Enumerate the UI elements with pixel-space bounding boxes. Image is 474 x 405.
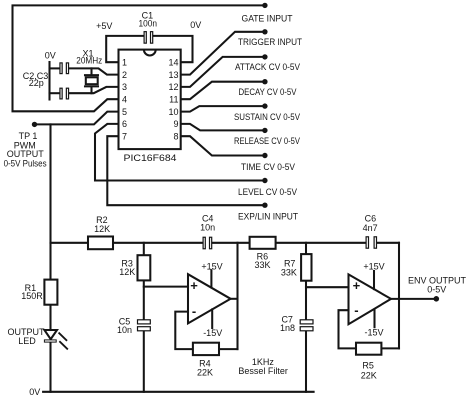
svg-text:10: 10 (168, 107, 178, 117)
svg-text:DECAY CV 0-5V: DECAY CV 0-5V (239, 87, 297, 97)
svg-text:11: 11 (169, 94, 178, 104)
svg-text:LEVEL CV 0-5V: LEVEL CV 0-5V (238, 187, 297, 197)
svg-text:-: - (192, 304, 196, 319)
svg-text:150R: 150R (21, 291, 43, 301)
svg-text:33K: 33K (281, 268, 297, 278)
svg-text:TIME CV 0-5V: TIME CV 0-5V (241, 162, 295, 172)
svg-text:33K: 33K (254, 260, 270, 270)
svg-text:14: 14 (168, 57, 178, 67)
svg-text:12K: 12K (94, 224, 110, 234)
svg-text:8: 8 (173, 131, 178, 141)
svg-text:C6: C6 (365, 213, 377, 223)
svg-text:22K: 22K (361, 371, 377, 381)
svg-text:+: + (190, 278, 198, 293)
svg-text:GATE INPUT: GATE INPUT (242, 13, 293, 23)
svg-text:0V: 0V (190, 20, 201, 30)
svg-text:1: 1 (122, 57, 127, 67)
svg-text:ATTACK CV 0-5V: ATTACK CV 0-5V (235, 62, 300, 72)
svg-text:+15V: +15V (363, 262, 384, 272)
svg-text:LED: LED (18, 336, 36, 346)
svg-text:10n: 10n (200, 222, 215, 232)
svg-text:SUSTAIN CV 0-5V: SUSTAIN CV 0-5V (234, 112, 300, 122)
svg-text:6: 6 (122, 119, 127, 129)
svg-text:1n8: 1n8 (280, 323, 295, 333)
svg-text:7: 7 (122, 131, 127, 141)
svg-text:0-5V Pulses: 0-5V Pulses (4, 159, 47, 169)
svg-text:22K: 22K (197, 367, 213, 377)
svg-text:100n: 100n (139, 19, 158, 29)
svg-text:12: 12 (168, 82, 178, 92)
svg-text:PIC16F684: PIC16F684 (124, 153, 177, 164)
svg-text:4: 4 (122, 94, 127, 104)
svg-text:+: + (353, 278, 361, 293)
svg-text:3: 3 (122, 82, 127, 92)
svg-text:2: 2 (122, 70, 127, 80)
svg-text:+5V: +5V (96, 21, 112, 31)
svg-text:TRIGGER INPUT: TRIGGER INPUT (238, 37, 302, 47)
svg-text:4n7: 4n7 (363, 223, 378, 233)
svg-text:RELEASE CV 0-5V: RELEASE CV 0-5V (234, 136, 300, 146)
svg-text:13: 13 (168, 70, 178, 80)
svg-text:0-5V: 0-5V (427, 285, 446, 295)
svg-text:-15V: -15V (364, 328, 383, 338)
svg-text:0V: 0V (45, 50, 56, 60)
svg-text:Bessel Filter: Bessel Filter (238, 366, 288, 376)
svg-text:22p: 22p (29, 78, 44, 88)
svg-text:9: 9 (173, 119, 178, 129)
svg-text:EXP/LIN INPUT: EXP/LIN INPUT (238, 212, 298, 222)
svg-text:5: 5 (122, 107, 127, 117)
svg-text:-15V: -15V (203, 328, 222, 338)
svg-text:0V: 0V (29, 387, 40, 397)
svg-text:+15V: +15V (201, 262, 222, 272)
svg-text:20MHz: 20MHz (76, 56, 102, 66)
svg-text:R5: R5 (362, 360, 374, 370)
svg-text:12K: 12K (119, 267, 135, 277)
svg-text:10n: 10n (117, 325, 132, 335)
svg-text:-: - (354, 303, 358, 318)
